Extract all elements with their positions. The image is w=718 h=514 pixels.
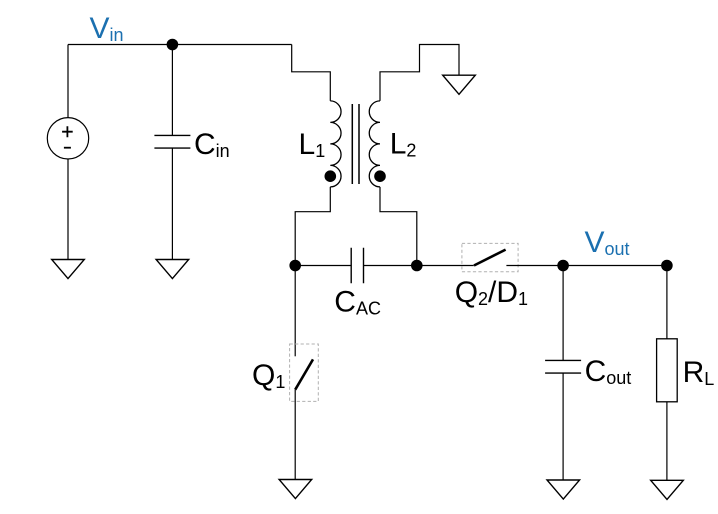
resistor RL bbox=[657, 339, 678, 402]
wire node C to Cout bbox=[562, 266, 564, 361]
capacitor Cout bbox=[545, 360, 581, 373]
wire switch Q2 to node C bbox=[506, 265, 667, 267]
wire switch Q1 to ground bbox=[294, 390, 296, 480]
wire node A to CAC bbox=[295, 265, 351, 267]
wire node D to RL bbox=[666, 266, 668, 339]
inductor L2 secondary winding bbox=[369, 101, 380, 187]
wire jog from top rail to L1 bbox=[292, 45, 331, 101]
wire source top lead bbox=[67, 45, 69, 118]
switch Q1 blade bbox=[295, 359, 313, 389]
node Vin junction bbox=[167, 39, 179, 51]
wire source bottom lead bbox=[67, 159, 69, 260]
wire CAC to node B bbox=[364, 265, 417, 267]
transformer core bbox=[352, 104, 359, 184]
wire node A to switch Q1 bbox=[294, 266, 296, 357]
wire L2 bottom jog to node B bbox=[380, 187, 417, 266]
node A junction bbox=[289, 260, 301, 272]
inductor L1 primary winding bbox=[330, 101, 341, 187]
wire top rail Vin bbox=[68, 44, 292, 46]
polarity dot L2 bbox=[374, 170, 386, 182]
node C junction Vout bbox=[557, 260, 569, 272]
switch Q2/D1 dashed box bbox=[462, 243, 518, 271]
svg-text:Q2/D1: Q2/D1 bbox=[455, 276, 528, 309]
ground below Q1 bbox=[279, 480, 312, 499]
ground below Cin bbox=[156, 260, 189, 279]
voltage source V1 bbox=[47, 118, 88, 159]
wire Cin bottom lead bbox=[171, 148, 173, 259]
capacitor CAC bbox=[351, 248, 363, 284]
polarity dot L1 bbox=[325, 170, 337, 182]
ground below source bbox=[52, 260, 85, 279]
node D junction bbox=[661, 260, 673, 272]
switch Q2/D1 blade bbox=[474, 250, 506, 266]
ground below Cout bbox=[547, 480, 580, 499]
switch Q1 dashed box bbox=[290, 344, 319, 401]
wire RL bottom lead bbox=[666, 402, 668, 481]
wire L2 top to ground jog bbox=[380, 45, 459, 101]
ground below RL bbox=[651, 480, 684, 499]
wire Cin top lead bbox=[171, 45, 173, 136]
ground top right bbox=[443, 75, 476, 94]
wire node B to switch Q2 bbox=[417, 265, 474, 267]
wire Cout bottom lead bbox=[562, 373, 564, 480]
capacitor Cin bbox=[154, 135, 190, 148]
wire L1 bottom jog to node A bbox=[295, 187, 330, 266]
node B junction bbox=[411, 260, 423, 272]
